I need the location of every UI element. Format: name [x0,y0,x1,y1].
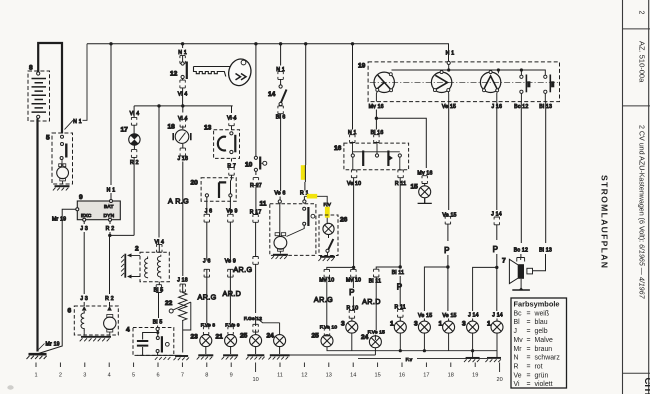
wire leader to Mr19 label [39,344,45,350]
svg-text:Mv: Mv [514,337,524,344]
wire R1 column from top bus [304,44,305,200]
connector below 13 [229,167,234,175]
ground lamp 15 (plain T) [418,198,432,204]
svg-text:N 1: N 1 [446,51,455,57]
connector Ve9 row2 [228,269,233,277]
lamp 21 [225,335,237,347]
svg-text:Mv 10: Mv 10 [319,277,334,283]
lamp 3a [346,321,358,333]
divider under AZ. 510-00a [623,105,650,107]
svg-text:=: = [527,328,531,335]
svg-text:AZ. 510-00a: AZ. 510-00a [638,41,647,83]
connector above lamp 25b [324,328,329,336]
svg-text:16: 16 [334,145,342,152]
node junction on top bus col 10 [254,42,257,45]
wire R17 column [255,172,257,335]
svg-text:9: 9 [230,373,233,379]
svg-text:Mr: Mr [514,346,523,353]
svg-text:Ve 9: Ve 9 [226,208,237,214]
wire lamp 24c to ground link [374,348,376,355]
wire battery negative to ground (thick) [36,119,38,352]
connector R11 below 16 [398,170,403,178]
svg-text:rot: rot [535,364,543,371]
wire R1 branch to stop lamp 26 [305,196,328,223]
svg-text:=: = [527,355,531,362]
node junction R2 [108,234,111,237]
svg-text:2: 2 [638,11,645,15]
svg-text:R 2: R 2 [106,226,115,232]
svg-text:3: 3 [414,321,418,328]
svg-text:N 1: N 1 [107,188,116,194]
svg-text:R 2: R 2 [130,160,139,166]
lamp 26 [323,223,334,234]
headlamp H2 [431,71,451,93]
wire EXC to chassis Mr19 [39,209,76,353]
legend rows [514,310,561,388]
svg-text:F.Ve 10: F.Ve 10 [320,325,338,331]
svg-text:=: = [527,337,531,344]
sidebar vertical rule left of title block [622,0,624,394]
svg-text:J 6: J 6 [203,259,211,265]
lamp 25 [250,335,262,347]
lamp 24c [369,336,381,348]
node junction Mv16 [375,117,378,120]
node N1 entry contact on 19 [447,61,450,64]
svg-text:10: 10 [252,377,258,383]
wire branch to lamp 3b [424,267,448,311]
svg-text:Bl 11: Bl 11 [369,278,381,284]
column Ve15 down [447,102,450,311]
node junction on top bus col 14 [279,42,282,45]
svg-text:J 18: J 18 [177,156,188,162]
svg-text:Mv 10: Mv 10 [346,277,361,283]
wiper switch 14 [279,44,282,200]
svg-text:4: 4 [108,373,111,379]
svg-text:F.Ve 8: F.Ve 8 [201,322,216,328]
wire lamp 3b to bus [423,333,425,351]
lamp 1a [394,321,406,333]
wire H3 tail to J16 [496,92,498,102]
connector Ve9 row1 [228,214,233,222]
svg-text:AR.D: AR.D [223,289,242,298]
wire lamp 1c to ground [496,333,498,357]
svg-text:13: 13 [326,373,332,379]
svg-text:R 17: R 17 [250,183,262,189]
connector above coil [157,244,162,252]
svg-text:14: 14 [350,373,356,379]
connector above 18 [180,119,185,127]
svg-text:12: 12 [170,70,178,77]
node junction J14 mid (horn tee) [495,266,498,269]
voltage regulator 9 [76,200,121,222]
svg-text:4: 4 [126,327,130,334]
svg-text:=: = [527,364,531,371]
svg-text:Bl 5: Bl 5 [153,320,163,326]
svg-text:braun: braun [535,346,553,353]
connector below 12 [180,80,185,88]
wire to lamp 1b [448,319,450,322]
svg-text:P: P [349,288,354,297]
svg-text:25: 25 [312,333,320,340]
wire under yellow A [304,165,306,182]
sidebar vertical rule right edge [648,0,650,394]
connector below 17 [131,150,136,158]
svg-text:F.Ve 9: F.Ve 9 [225,322,240,328]
lighting switch 10 [255,44,257,156]
connector N1 into 16 [350,135,355,143]
svg-text:15: 15 [411,184,419,191]
wire N1 bus down to regulator BAT [110,44,112,200]
svg-text:7: 7 [502,258,506,265]
ground lamp 1c [485,358,501,362]
connector below switch 10 [253,178,258,186]
chassis bar left of coil [121,254,125,278]
svg-text:=: = [527,346,531,353]
svg-text:8: 8 [29,65,33,72]
wire H1 tail to Mv16 [375,91,378,101]
svg-text:21: 21 [216,334,224,341]
svg-text:6: 6 [68,308,72,315]
svg-text:R: R [514,364,519,371]
svg-text:18: 18 [168,124,176,131]
resistor 22 (adjustable) [169,293,191,353]
lamp 3c [467,321,479,333]
yellow highlight C [325,207,330,218]
connector Bl11 left [374,269,379,277]
svg-text:6: 6 [156,373,159,379]
svg-text:Malve: Malve [535,337,554,344]
svg-text:Mr 19: Mr 19 [46,342,60,348]
svg-text:24: 24 [361,334,369,341]
svg-text:STROMLAUFPLAN: STROMLAUFPLAN [600,175,610,269]
svg-text:F.Ve 15: F.Ve 15 [368,329,386,335]
svg-text:Bl 13: Bl 13 [539,247,552,253]
svg-text:Bc: Bc [514,310,523,317]
svg-text:weiß: weiß [534,310,550,317]
svg-text:Bl 6: Bl 6 [276,115,286,121]
node junction Ve15 mid [446,265,449,268]
connector Bl16 into 16 [374,135,379,143]
flasher relay 16 [344,143,409,170]
connector above lamp 23 [203,327,208,335]
column Ve10 down to mid junction [352,170,355,288]
svg-text:=: = [527,381,531,388]
connector above 14 [278,72,283,80]
svg-text:Vi: Vi [514,381,520,388]
connector coil bottom [156,285,161,293]
wire to lamp 1c [496,319,498,322]
wire to lamp 3c [472,319,474,322]
wire lamp 21 to ground [230,347,232,354]
instrument 18 chain [182,106,184,293]
ground resistor 22 column [174,356,190,360]
svg-text:16: 16 [399,373,405,379]
wire coil to chassis with arrows [129,255,140,276]
connector Mv10 left [324,269,329,277]
connector above 13 [229,118,234,126]
svg-text:F.v: F.v [406,357,413,363]
svg-text:AR.D: AR.D [362,297,381,306]
svg-text:DYN: DYN [104,213,115,219]
wire H2 tail to Ve15 [447,92,449,102]
column Bl13 to horn button [533,102,546,271]
svg-text:Vi 4: Vi 4 [178,91,188,97]
connector above lamp 21 [228,327,233,335]
centerline dash-dot in 19 [370,81,559,83]
column Ve9 from switch 20 to lamp 21 [229,197,231,335]
connector Ve15 [445,216,450,224]
svg-text:17: 17 [423,373,429,379]
svg-text:N 1: N 1 [73,119,82,125]
node junction in 19 at Bc12 [520,68,523,71]
svg-text:AR.G: AR.G [198,293,217,302]
node junction on top bus col R1 [304,42,307,45]
svg-text:11: 11 [260,201,267,208]
lamp 24 [274,335,286,347]
wire J3 regulator to dynamo [83,221,85,306]
svg-text:1: 1 [487,321,491,328]
wire lamp 23 to ground [205,347,207,354]
svg-text:Ve 9: Ve 9 [225,259,236,265]
svg-text:schwarz: schwarz [535,355,561,362]
wire R2 branch to charge lamp 17 [110,234,134,236]
diagram placeholder: wires and components are inserted below [27,42,560,363]
svg-text:20: 20 [191,179,199,186]
battery 8 [28,71,50,121]
connector below 18 [180,148,185,156]
wire R10 to lamp 3a [352,297,354,322]
svg-text:J 3: J 3 [80,226,88,232]
breaker and condenser 4 [133,327,182,355]
svg-text:N: N [514,355,519,362]
node junction on top bus col 16 [351,42,354,45]
svg-text:CITR: CITR [642,378,650,394]
svg-text:12: 12 [301,373,307,379]
switch 12 contacts [181,62,187,80]
ground 26 [318,257,335,261]
wire battery positive feed (thick) [38,43,62,134]
svg-text:24: 24 [267,333,275,340]
connector Mv10 right [351,269,356,277]
ground lamp 21 [222,355,239,359]
node junction lamp 3c bus [471,349,474,352]
svg-text:P: P [444,246,449,255]
starter 5 [52,133,73,185]
headlamp H1 [374,72,394,92]
column J6 from switch 20 to lamp 23 [205,197,208,335]
connector J6 row2 [204,269,209,277]
svg-text:10: 10 [245,161,253,168]
ground lamp 24 (wide) + link to 24c [268,355,289,359]
wiper motor 11 [270,200,316,256]
node junction Ve10 mid [352,266,355,269]
svg-text:3: 3 [341,321,345,328]
svg-text:J 3: J 3 [80,296,88,302]
relay 13 [232,106,233,130]
svg-text:1: 1 [34,373,37,379]
svg-text:J 14: J 14 [492,312,503,318]
svg-text:18: 18 [448,373,454,379]
svg-text:17: 17 [121,127,129,134]
svg-text:25: 25 [240,333,248,340]
svg-text:J: J [514,328,517,335]
node junction Vi4 bus col coil [157,104,160,107]
Vi4 distribution bus [134,105,233,107]
divider above CITROEN mark [623,372,650,374]
column Bc12 to horn [520,102,522,258]
svg-text:P: P [397,282,402,291]
lamp 1c [491,321,503,333]
switch 14 blade [279,85,287,106]
node junction on top bus col 12 [181,42,184,45]
svg-text:15: 15 [374,373,380,379]
svg-text:14: 14 [268,91,276,98]
svg-text:Ve 6: Ve 6 [274,191,285,197]
svg-text:Ve: Ve [514,372,522,379]
column R11 down to mid junction [399,178,401,307]
svg-text:3: 3 [462,321,466,328]
F.v ground line [358,357,487,359]
wire lamp 1b to bus [448,333,450,351]
connector above 12 [180,56,185,64]
divider under page number 2 [623,28,650,30]
ground under breaker [155,357,171,360]
svg-text:23: 23 [191,334,199,341]
wire to lamp 3b [423,319,425,322]
svg-text:19: 19 [472,373,478,379]
svg-text:8: 8 [205,373,208,379]
wire 13 to 20 [231,158,232,193]
yellow highlight B [307,194,317,199]
svg-text:Mr 19: Mr 19 [52,217,66,223]
wire coil Bl5 down to breaker 4 [158,282,160,328]
scan smudge bottom-left [7,385,13,389]
connector above resistor 22 [180,284,185,292]
svg-text:1: 1 [390,321,394,328]
lamp 1b [443,321,455,333]
svg-text:R 2: R 2 [105,296,114,302]
svg-text:2 CV und AZU-Kastenwagen (6 Vo: 2 CV und AZU-Kastenwagen (6 Volt): 6/196… [638,125,646,300]
svg-text:Ve 15: Ve 15 [418,313,432,319]
svg-text:EXC: EXC [81,213,92,219]
wire branch to lamp 3c [473,267,497,311]
svg-text:J 14: J 14 [491,211,502,217]
wire lamp 24 to ground [279,347,281,354]
svg-text:20: 20 [496,377,502,383]
legend frame [511,298,567,388]
wire Mv16 column with branch to lamp 15 [376,110,426,186]
svg-text:Farbsymbole: Farbsymbole [514,300,560,309]
wire branch to F.Ve10 lamp 25b [327,267,354,334]
svg-text:2: 2 [135,246,139,253]
wire internal feed line in 19 [392,65,546,76]
svg-text:gelb: gelb [535,328,548,335]
svg-text:Bl 11: Bl 11 [392,270,404,276]
svg-text:Ve 15: Ve 15 [442,212,456,218]
horn 7 [509,258,532,291]
wire branch to lamp 24 [256,317,280,335]
node junction lamp 3b bus [423,349,426,352]
connector J6 row1 [204,214,209,222]
svg-text:Vi 4: Vi 4 [130,111,140,117]
node junction Vi4 bus col gauge [181,104,184,107]
wire R2 regulator down with junction [109,221,112,306]
ground wiper motor [271,255,288,259]
wire N1 col 16 down [351,44,353,143]
wire lamp 25 to ground [255,347,257,354]
lamp 17 (half-filled) [129,134,140,145]
ignition switch 12 [182,44,184,106]
connector J14 [494,217,499,225]
connector above lamp 3a [349,310,354,318]
svg-text:22: 22 [165,300,173,307]
svg-text:5: 5 [46,135,50,142]
svg-text:J 18: J 18 [177,278,188,284]
wire lamp 1a to bus [399,333,401,351]
changeover contact Bc12 in 19 [520,75,531,102]
node junction in 19 at Ve15 [447,68,450,71]
svg-text:Bc 12: Bc 12 [514,247,528,253]
svg-text:A R.G: A R.G [168,197,189,206]
svg-text:3: 3 [83,373,86,379]
svg-text:AR.G: AR.G [233,265,252,274]
connector Ve10 below 16 [351,170,356,178]
column J14 down [496,102,498,311]
svg-text:Mv 16: Mv 16 [369,104,384,110]
lamp 15 [419,186,431,198]
ground dynamo (wide hatched) [80,337,111,342]
wire lamp 3a to bus [351,333,353,351]
wire branch to Bl11 lamp 24c [375,267,400,340]
svg-text:2: 2 [59,373,62,379]
svg-text:AR.G: AR.G [314,295,333,304]
svg-text:1: 1 [439,321,443,328]
svg-text:grün: grün [535,372,549,379]
svg-text:Vi 4: Vi 4 [178,116,188,122]
svg-text:J 14: J 14 [468,312,479,318]
ground lamp 3c [464,358,480,362]
ground starter [53,186,70,190]
wire N1 riser from battery tap [65,44,88,130]
svg-text:5: 5 [132,373,135,379]
wire Vi4 bus down to coil 2 [158,106,160,252]
svg-text:violett: violett [535,381,553,388]
node junction R11 mid [399,265,402,268]
svg-text:Bl: Bl [514,319,521,326]
svg-text:26: 26 [340,217,348,224]
changeover contact Bl13 in 19 [544,75,555,102]
svg-text:=: = [527,319,531,326]
connector R17 row2 [253,257,258,265]
headlamp unit box 19 [368,62,559,102]
gauge 18 [173,130,191,144]
headlamp H3 [480,71,500,93]
yellow highlight A [301,165,306,180]
svg-text:J 6: J 6 [205,208,213,214]
ground lamp 25 (wide) [246,355,265,359]
svg-text:7: 7 [181,373,184,379]
wire lamp 3c to ground [472,333,474,357]
svg-text:P: P [493,245,498,254]
connector above lamp 25 [253,324,258,332]
svg-text:19: 19 [358,63,366,70]
svg-text:9: 9 [79,194,83,201]
lamp 3b [418,321,430,333]
ground battery (thick hatched) [27,354,47,359]
connector below 14 [278,106,283,114]
wire ground bus to lamp 24c [290,354,376,356]
svg-text:blau: blau [535,319,548,326]
